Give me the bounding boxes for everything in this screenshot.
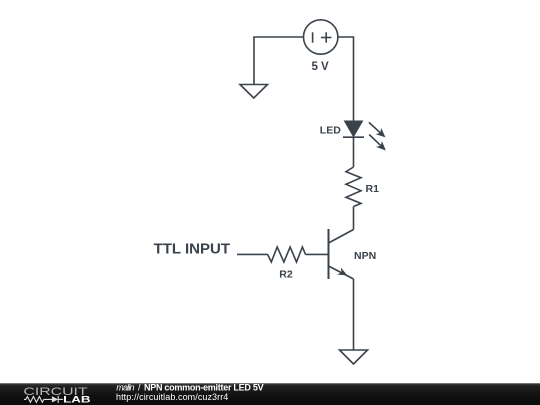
svg-text:NPN common-emitter LED 5V: NPN common-emitter LED 5V xyxy=(144,382,264,392)
transistor Q1 emitter arrow xyxy=(337,268,347,276)
ground bottom xyxy=(340,350,368,364)
ground top-left xyxy=(240,85,268,99)
svg-text:LAB: LAB xyxy=(63,394,91,404)
transistor Q1 collector xyxy=(329,230,354,244)
wire: R1 bottom to collector xyxy=(353,207,355,230)
LED light arrow 1 xyxy=(369,122,381,133)
svg-text:LED: LED xyxy=(320,125,341,137)
svg-text:http://circuitlab.com/cuz3rr4: http://circuitlab.com/cuz3rr4 xyxy=(116,392,228,402)
svg-text:malin: malin xyxy=(116,382,134,392)
svg-text:5 V: 5 V xyxy=(311,61,329,73)
wire: source right, down to LED anode xyxy=(338,37,354,122)
wire: source left to corner and down xyxy=(254,37,304,85)
wire: TTL input lead to R2 left xyxy=(237,253,268,255)
svg-text:NPN: NPN xyxy=(354,250,376,262)
wire: R2 right to base xyxy=(306,253,329,255)
LED light arrow 2 xyxy=(369,135,381,146)
transistor Q1 emitter xyxy=(329,266,354,279)
wire: emitter down to ground xyxy=(353,279,355,350)
svg-text:R2: R2 xyxy=(279,268,293,280)
svg-text:TTL INPUT: TTL INPUT xyxy=(154,240,230,257)
wire: LED cathode to R1 top xyxy=(353,137,355,167)
voltage source V1 xyxy=(304,20,338,54)
transistor Q1 base bar xyxy=(328,229,330,279)
resistor R2 xyxy=(268,247,306,262)
LED D1 body xyxy=(345,121,362,136)
footer logo diode xyxy=(52,396,58,402)
footer bar xyxy=(0,383,540,405)
svg-text:R1: R1 xyxy=(366,183,380,195)
resistor R1 xyxy=(346,167,361,207)
footer logo zigzag wire xyxy=(24,396,63,403)
